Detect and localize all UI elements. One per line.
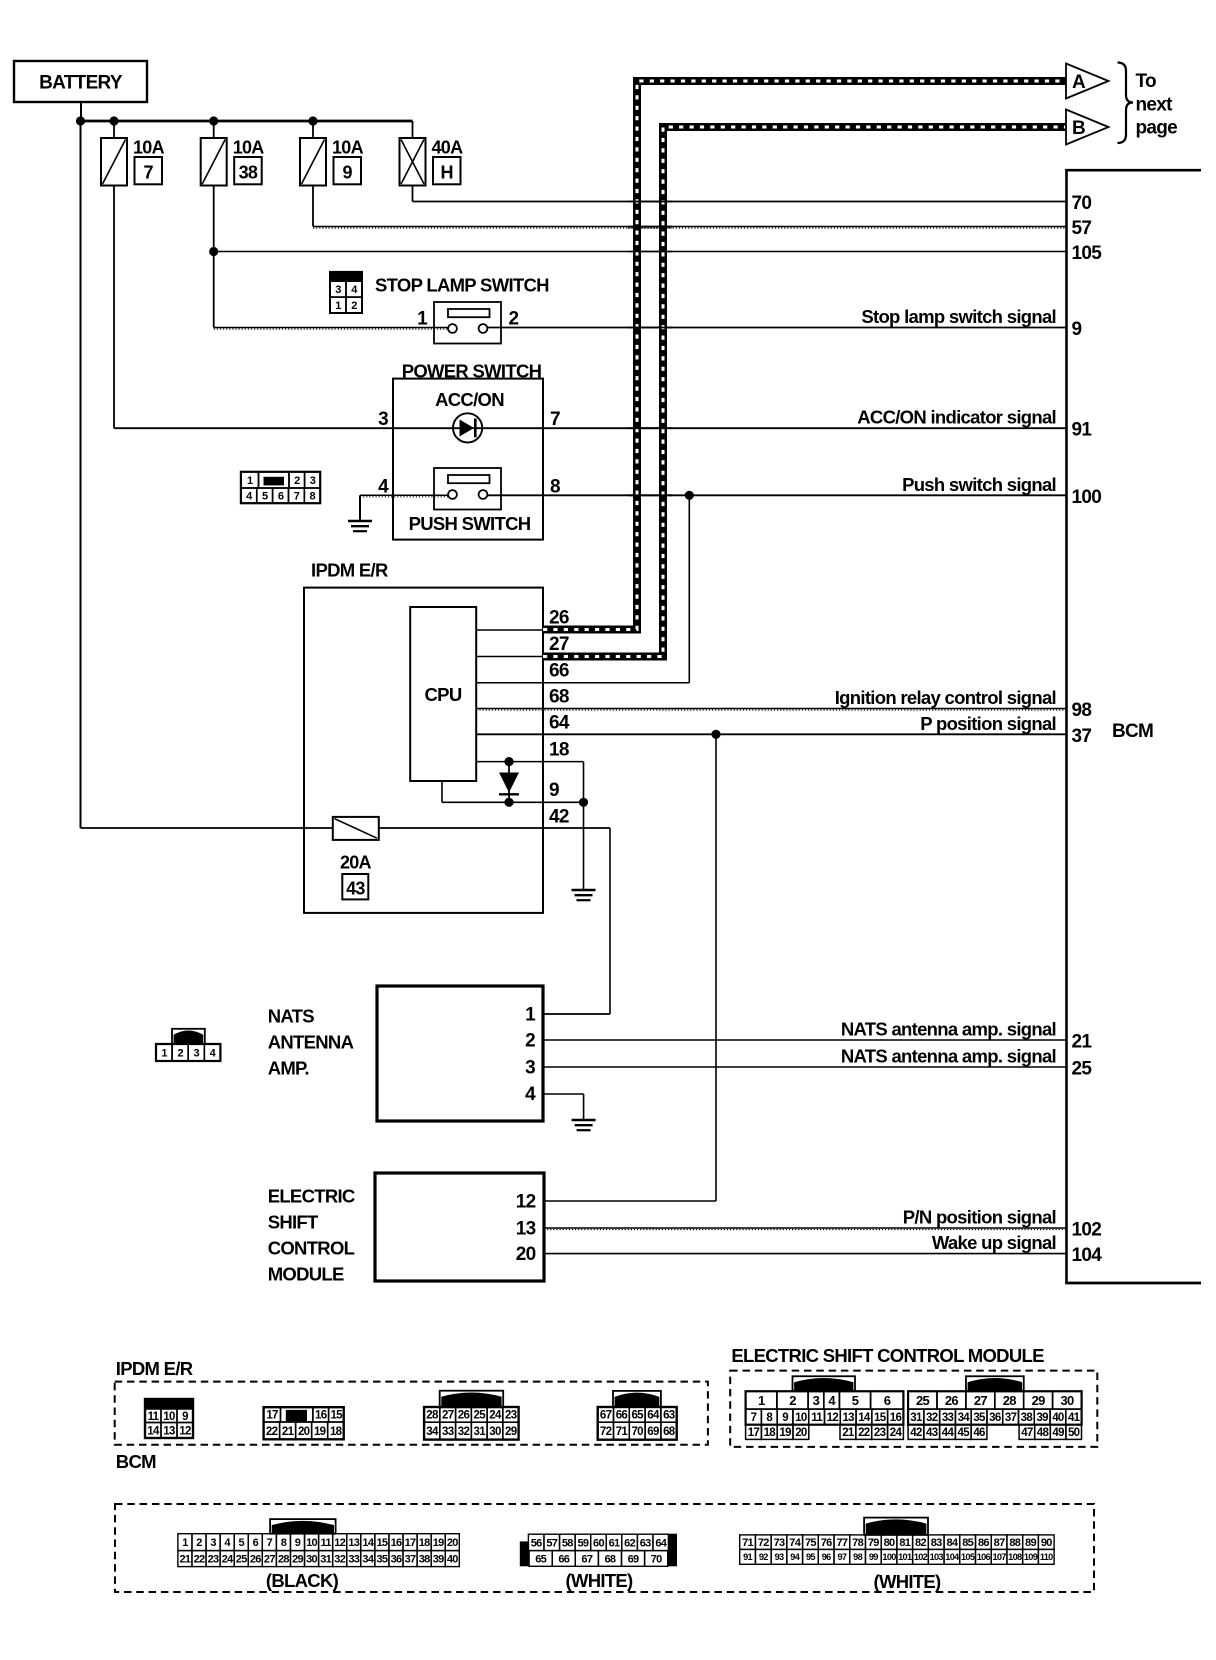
svg-text:21: 21	[282, 1426, 295, 1438]
svg-text:BCM: BCM	[116, 1451, 156, 1472]
svg-text:13: 13	[516, 1219, 536, 1240]
svg-text:3: 3	[310, 475, 316, 487]
stop lamp switch S1	[434, 302, 501, 344]
IPDM connector C3	[440, 1391, 504, 1408]
wire CPU pin 9 line	[442, 801, 584, 803]
svg-text:SHIFT: SHIFT	[268, 1212, 319, 1233]
BCM connector black	[270, 1519, 336, 1534]
svg-text:26: 26	[458, 1410, 470, 1422]
connector icon stop lamp switch	[330, 272, 362, 281]
junction fuse F2	[209, 116, 218, 125]
svg-text:71: 71	[742, 1537, 753, 1549]
svg-text:20: 20	[795, 1427, 807, 1439]
wire junction down to IPDM pin 66 line	[688, 495, 690, 682]
svg-text:12: 12	[179, 1425, 191, 1437]
svg-text:101: 101	[898, 1552, 912, 1562]
svg-text:2: 2	[509, 309, 519, 330]
svg-text:63: 63	[640, 1537, 651, 1549]
svg-text:PUSH SWITCH: PUSH SWITCH	[409, 513, 531, 534]
svg-text:91: 91	[743, 1552, 752, 1562]
svg-text:2: 2	[789, 1393, 796, 1408]
push switch S2	[434, 468, 501, 510]
wire CPU pin 27 stub	[476, 656, 548, 658]
svg-text:9: 9	[182, 1411, 188, 1423]
svg-text:83: 83	[931, 1537, 942, 1549]
svg-text:2: 2	[294, 475, 300, 487]
svg-text:72: 72	[758, 1537, 769, 1549]
wire battery drop	[80, 102, 82, 121]
svg-text:25: 25	[916, 1393, 930, 1408]
wire bus to fuse F1	[113, 121, 115, 138]
svg-text:2: 2	[525, 1030, 535, 1051]
BCM connector area dashed box	[115, 1504, 1094, 1592]
svg-text:22: 22	[858, 1427, 870, 1439]
wire NATS antenna amp signal to BCM 21	[543, 1039, 1066, 1041]
svg-text:90: 90	[1041, 1537, 1052, 1549]
svg-text:66: 66	[558, 1553, 569, 1565]
svg-text:47: 47	[1021, 1427, 1033, 1439]
IPDM connector C1	[145, 1399, 193, 1409]
svg-text:9: 9	[782, 1412, 788, 1424]
svg-text:12: 12	[334, 1537, 345, 1549]
svg-text:40A: 40A	[432, 138, 464, 158]
svg-text:5: 5	[239, 1537, 245, 1549]
svg-text:23: 23	[208, 1554, 219, 1566]
svg-text:6: 6	[884, 1393, 891, 1408]
svg-text:74: 74	[789, 1537, 801, 1549]
svg-text:82: 82	[915, 1537, 926, 1549]
svg-text:2: 2	[177, 1047, 183, 1059]
svg-text:B: B	[1072, 118, 1085, 139]
svg-text:23: 23	[874, 1427, 886, 1439]
svg-text:3: 3	[210, 1537, 216, 1549]
svg-text:14: 14	[147, 1425, 160, 1437]
wire NATS antenna amp signal to BCM 25	[543, 1066, 1066, 1068]
svg-text:75: 75	[805, 1537, 816, 1549]
connector arrow A	[1066, 64, 1109, 99]
svg-text:26: 26	[549, 608, 569, 629]
svg-text:40: 40	[1052, 1412, 1064, 1424]
svg-text:2: 2	[196, 1537, 202, 1549]
IPDM E/R box	[304, 588, 543, 913]
svg-text:99: 99	[869, 1552, 878, 1562]
svg-text:BATTERY: BATTERY	[39, 73, 123, 94]
svg-text:27: 27	[974, 1393, 988, 1408]
svg-text:68: 68	[549, 687, 569, 708]
svg-text:ELECTRIC SHIFT CONTROL MODULE: ELECTRIC SHIFT CONTROL MODULE	[731, 1345, 1044, 1366]
brace to next page	[1118, 63, 1134, 144]
svg-text:P position signal: P position signal	[920, 713, 1056, 734]
svg-text:3: 3	[378, 409, 388, 430]
svg-text:17: 17	[748, 1427, 760, 1439]
svg-text:20: 20	[298, 1426, 310, 1438]
svg-text:29: 29	[1032, 1393, 1046, 1408]
wire to BCM pin 57 (dotted option)	[313, 226, 1066, 228]
svg-text:(WHITE): (WHITE)	[873, 1571, 941, 1592]
svg-text:10A: 10A	[233, 138, 265, 158]
BCM box	[1065, 169, 1068, 1283]
svg-text:4: 4	[525, 1084, 536, 1105]
junction battery bus	[76, 116, 85, 125]
connector icon NATS antenna amp	[172, 1029, 205, 1044]
wire bus to fusible link H	[412, 121, 414, 138]
svg-text:105: 105	[1072, 243, 1103, 264]
svg-text:ACC/ON: ACC/ON	[435, 389, 504, 410]
wire ACC/ON indicator signal to BCM pin 91	[393, 427, 1066, 429]
svg-text:16: 16	[391, 1537, 402, 1549]
svg-text:44: 44	[942, 1427, 955, 1439]
svg-text:32: 32	[458, 1426, 470, 1438]
fusible link 40A H	[400, 138, 426, 186]
wire battery vertical to relay	[80, 121, 82, 828]
svg-text:64: 64	[549, 713, 570, 734]
wire shift module pin 12 to P position junction	[544, 1200, 716, 1202]
svg-text:19: 19	[433, 1537, 444, 1549]
svg-text:49: 49	[1052, 1427, 1064, 1439]
wire NATS ground stem	[583, 1094, 585, 1120]
svg-text:ELECTRIC: ELECTRIC	[268, 1186, 355, 1207]
wire push switch signal to BCM pin 100	[487, 494, 1066, 496]
svg-text:70: 70	[631, 1426, 643, 1438]
svg-text:23: 23	[505, 1410, 517, 1422]
svg-text:25: 25	[236, 1554, 247, 1566]
svg-text:61: 61	[609, 1537, 620, 1549]
junction fuse F1	[109, 116, 118, 125]
svg-text:67: 67	[600, 1410, 612, 1422]
svg-text:12: 12	[516, 1192, 536, 1213]
svg-text:65: 65	[535, 1553, 546, 1565]
svg-text:IPDM E/R: IPDM E/R	[311, 560, 388, 581]
svg-text:CPU: CPU	[425, 684, 462, 705]
svg-text:Ignition relay control signal: Ignition relay control signal	[835, 687, 1056, 708]
svg-text:11: 11	[148, 1411, 160, 1423]
svg-text:89: 89	[1025, 1537, 1036, 1549]
svg-text:65: 65	[631, 1410, 644, 1422]
svg-text:5: 5	[262, 491, 268, 503]
svg-text:12: 12	[827, 1412, 839, 1424]
svg-text:ACC/ON indicator signal: ACC/ON indicator signal	[857, 407, 1056, 428]
svg-text:98: 98	[853, 1552, 862, 1562]
NATS antenna amp box	[377, 986, 543, 1121]
svg-text:22: 22	[194, 1554, 205, 1566]
svg-text:3: 3	[525, 1057, 535, 1078]
svg-text:1: 1	[525, 1004, 536, 1025]
svg-text:76: 76	[821, 1537, 832, 1549]
svg-text:40: 40	[447, 1554, 458, 1566]
svg-text:64: 64	[647, 1410, 660, 1422]
ground push switch	[348, 520, 372, 523]
svg-text:Push switch signal: Push switch signal	[902, 474, 1056, 495]
junction pin18/pin9 ground	[579, 798, 588, 807]
svg-text:106: 106	[977, 1552, 991, 1562]
svg-text:28: 28	[278, 1554, 289, 1566]
wire fuse 20A to pin 42	[379, 827, 610, 829]
svg-text:16: 16	[890, 1412, 902, 1424]
svg-text:70: 70	[651, 1553, 662, 1565]
svg-text:10A: 10A	[332, 138, 364, 158]
svg-text:AMP.: AMP.	[268, 1058, 309, 1079]
svg-text:88: 88	[1009, 1537, 1020, 1549]
svg-text:A: A	[1072, 72, 1086, 93]
svg-text:79: 79	[868, 1537, 879, 1549]
svg-text:27: 27	[442, 1410, 454, 1422]
wire pin18 down to ground	[583, 762, 585, 890]
BCM connector white 56-70	[520, 1541, 529, 1566]
svg-text:P/N position signal: P/N position signal	[903, 1207, 1056, 1228]
wire fuse7 to power switch pin 3	[114, 427, 393, 429]
svg-text:32: 32	[334, 1554, 345, 1566]
wire fuse 9 down	[312, 186, 314, 227]
wire down to NATS pin 1	[609, 828, 611, 1014]
svg-text:84: 84	[946, 1537, 958, 1549]
svg-text:66: 66	[549, 661, 569, 682]
svg-text:66: 66	[616, 1410, 628, 1422]
svg-text:37: 37	[1005, 1412, 1017, 1424]
svg-text:43: 43	[926, 1427, 938, 1439]
IPDM connector C4	[613, 1391, 661, 1407]
wire to NATS antenna amp pin 1	[543, 1013, 610, 1015]
svg-text:80: 80	[884, 1537, 895, 1549]
wire to BCM pin 70	[413, 201, 1067, 203]
svg-text:1: 1	[417, 309, 428, 330]
svg-text:24: 24	[890, 1427, 903, 1439]
svg-text:29: 29	[292, 1554, 303, 1566]
wire fusible link H down	[412, 186, 414, 202]
svg-text:1: 1	[758, 1393, 765, 1408]
svg-text:1: 1	[335, 300, 341, 312]
diode D1	[504, 757, 513, 766]
svg-text:16: 16	[315, 1410, 327, 1422]
wire CPU bottom stub	[441, 781, 443, 802]
svg-text:86: 86	[978, 1537, 989, 1549]
svg-text:29: 29	[505, 1426, 517, 1438]
svg-text:20A: 20A	[340, 852, 372, 872]
CPU box	[410, 607, 476, 781]
svg-text:34: 34	[362, 1554, 374, 1566]
wire fuse 7 down	[113, 186, 115, 429]
wire A heavy dashed (to next page)	[543, 81, 1066, 630]
svg-text:14: 14	[362, 1537, 374, 1549]
connector arrow B	[1066, 110, 1109, 145]
svg-text:37: 37	[1072, 726, 1092, 747]
svg-text:57: 57	[546, 1537, 557, 1549]
wire CPU pin 66 line	[476, 682, 689, 684]
wire to BCM pin 105	[214, 251, 1066, 253]
svg-text:14: 14	[858, 1412, 871, 1424]
shift module connector grid	[793, 1376, 856, 1391]
svg-text:35: 35	[376, 1554, 387, 1566]
svg-text:110: 110	[1040, 1552, 1053, 1562]
svg-text:10A: 10A	[133, 138, 165, 158]
svg-text:3: 3	[335, 284, 341, 296]
svg-text:50: 50	[1068, 1427, 1080, 1439]
svg-text:6: 6	[253, 1537, 259, 1549]
wire push switch ground stem	[359, 495, 361, 521]
svg-text:20: 20	[516, 1244, 536, 1265]
svg-text:NATS antenna amp. signal: NATS antenna amp. signal	[841, 1019, 1056, 1040]
svg-text:57: 57	[1072, 218, 1092, 239]
svg-text:13: 13	[163, 1425, 175, 1437]
svg-text:37: 37	[405, 1554, 416, 1566]
svg-text:91: 91	[1072, 420, 1093, 441]
wire B heavy dashed (to next page)	[543, 127, 1066, 657]
svg-text:15: 15	[330, 1410, 343, 1422]
svg-text:7: 7	[550, 409, 560, 430]
svg-text:H: H	[441, 162, 453, 182]
ground NATS	[572, 1119, 596, 1122]
svg-text:5: 5	[852, 1393, 859, 1408]
svg-text:33: 33	[442, 1426, 454, 1438]
svg-text:STOP LAMP SWITCH: STOP LAMP SWITCH	[375, 274, 549, 295]
svg-text:6: 6	[278, 491, 284, 503]
wire wake up signal to BCM 104	[544, 1253, 1066, 1255]
fuse 10A 9	[300, 138, 326, 186]
wire ignition relay control signal to BCM 98 (dotted option)	[476, 708, 1066, 710]
svg-text:ANTENNA: ANTENNA	[268, 1032, 354, 1053]
svg-text:(BLACK): (BLACK)	[266, 1570, 339, 1591]
svg-text:36: 36	[989, 1412, 1001, 1424]
svg-text:27: 27	[549, 634, 569, 655]
svg-text:Wake up signal: Wake up signal	[932, 1232, 1056, 1253]
svg-text:73: 73	[774, 1537, 785, 1549]
svg-text:Stop lamp switch signal: Stop lamp switch signal	[861, 306, 1056, 327]
svg-text:33: 33	[348, 1554, 359, 1566]
svg-text:3: 3	[194, 1047, 200, 1059]
svg-text:CONTROL: CONTROL	[268, 1238, 355, 1259]
svg-text:1: 1	[161, 1047, 167, 1059]
svg-text:15: 15	[874, 1412, 887, 1424]
svg-text:71: 71	[616, 1426, 629, 1438]
svg-text:To: To	[1136, 71, 1156, 92]
svg-text:102: 102	[914, 1552, 928, 1562]
svg-text:13: 13	[842, 1412, 854, 1424]
svg-text:87: 87	[994, 1537, 1005, 1549]
svg-text:NATS antenna amp. signal: NATS antenna amp. signal	[841, 1046, 1056, 1067]
shift module connector area dashed box	[730, 1371, 1097, 1447]
svg-text:10: 10	[795, 1412, 807, 1424]
svg-text:33: 33	[942, 1412, 954, 1424]
svg-text:17: 17	[405, 1537, 416, 1549]
svg-text:NATS: NATS	[268, 1006, 315, 1027]
svg-text:31: 31	[474, 1426, 487, 1438]
svg-text:26: 26	[945, 1393, 959, 1408]
svg-text:34: 34	[958, 1412, 971, 1424]
svg-text:60: 60	[593, 1537, 604, 1549]
svg-text:next: next	[1136, 95, 1174, 116]
wire ground to push switch pin 4 (dotted option)	[360, 494, 448, 496]
BCM connector white 71-110	[864, 1518, 928, 1535]
svg-text:97: 97	[837, 1552, 846, 1562]
svg-text:36: 36	[391, 1554, 402, 1566]
svg-text:20: 20	[447, 1537, 458, 1549]
svg-text:2: 2	[351, 300, 357, 312]
svg-text:67: 67	[581, 1553, 592, 1565]
electric shift control module box	[375, 1173, 544, 1281]
svg-text:72: 72	[600, 1426, 612, 1438]
svg-text:39: 39	[433, 1554, 444, 1566]
ground IPDM CPU	[572, 889, 596, 892]
svg-text:32: 32	[926, 1412, 938, 1424]
svg-text:69: 69	[628, 1553, 639, 1565]
connector icon power switch 8pin	[241, 472, 259, 488]
svg-text:95: 95	[806, 1552, 815, 1562]
svg-text:81: 81	[899, 1537, 910, 1549]
svg-text:19: 19	[314, 1426, 326, 1438]
svg-text:7: 7	[267, 1537, 273, 1549]
svg-text:18: 18	[419, 1537, 430, 1549]
battery box	[14, 61, 147, 102]
svg-text:104: 104	[1072, 1245, 1103, 1266]
svg-text:8: 8	[281, 1537, 287, 1549]
svg-text:105: 105	[961, 1552, 975, 1562]
junction push switch signal / CPU66	[685, 491, 694, 500]
svg-text:page: page	[1136, 118, 1178, 139]
wire crossings over dashed bands	[628, 201, 672, 203]
svg-text:13: 13	[348, 1537, 359, 1549]
wire fuse38 to stop lamp switch (dotted option)	[214, 327, 448, 329]
svg-text:9: 9	[1072, 319, 1082, 340]
svg-text:41: 41	[1068, 1412, 1081, 1424]
svg-text:1: 1	[247, 475, 253, 487]
svg-text:104: 104	[945, 1552, 960, 1562]
svg-text:7: 7	[294, 491, 300, 503]
svg-text:10: 10	[163, 1411, 175, 1423]
svg-text:21: 21	[180, 1554, 191, 1566]
svg-text:68: 68	[605, 1553, 616, 1565]
svg-text:IPDM E/R: IPDM E/R	[116, 1358, 193, 1379]
svg-text:96: 96	[822, 1552, 831, 1562]
svg-text:93: 93	[775, 1552, 784, 1562]
svg-text:19: 19	[779, 1427, 791, 1439]
svg-text:31: 31	[910, 1412, 923, 1424]
svg-text:102: 102	[1072, 1220, 1102, 1241]
svg-text:30: 30	[1061, 1393, 1075, 1408]
svg-text:64: 64	[655, 1537, 667, 1549]
svg-text:100: 100	[882, 1552, 896, 1562]
svg-text:46: 46	[973, 1427, 985, 1439]
power switch box	[393, 379, 543, 540]
junction P position signal	[711, 730, 720, 739]
svg-text:92: 92	[759, 1552, 768, 1562]
svg-text:59: 59	[577, 1537, 588, 1549]
wire bus to fuse F2	[213, 121, 215, 138]
wire CPU pin 18 line	[476, 761, 583, 763]
fuse 10A 38	[201, 138, 227, 186]
svg-text:78: 78	[852, 1537, 863, 1549]
wire stop lamp switch signal to BCM pin 9	[487, 327, 1066, 329]
svg-text:109: 109	[1024, 1552, 1038, 1562]
svg-text:28: 28	[1003, 1393, 1017, 1408]
svg-text:9: 9	[549, 780, 559, 801]
svg-text:8: 8	[310, 491, 316, 503]
svg-text:70: 70	[1072, 193, 1092, 214]
svg-text:103: 103	[930, 1552, 944, 1562]
svg-text:58: 58	[562, 1537, 573, 1549]
svg-text:45: 45	[958, 1427, 971, 1439]
svg-text:21: 21	[842, 1427, 855, 1439]
svg-text:28: 28	[426, 1410, 439, 1422]
svg-text:34: 34	[426, 1426, 439, 1438]
svg-text:26: 26	[250, 1554, 261, 1566]
svg-text:7: 7	[751, 1412, 757, 1424]
svg-text:24: 24	[222, 1554, 234, 1566]
IPDM connector C2	[264, 1407, 281, 1422]
svg-text:18: 18	[764, 1427, 777, 1439]
svg-text:18: 18	[330, 1426, 343, 1438]
svg-text:4: 4	[378, 477, 389, 498]
svg-text:BCM: BCM	[1112, 721, 1153, 742]
wire junction down to shift module pin 12	[715, 734, 717, 1201]
